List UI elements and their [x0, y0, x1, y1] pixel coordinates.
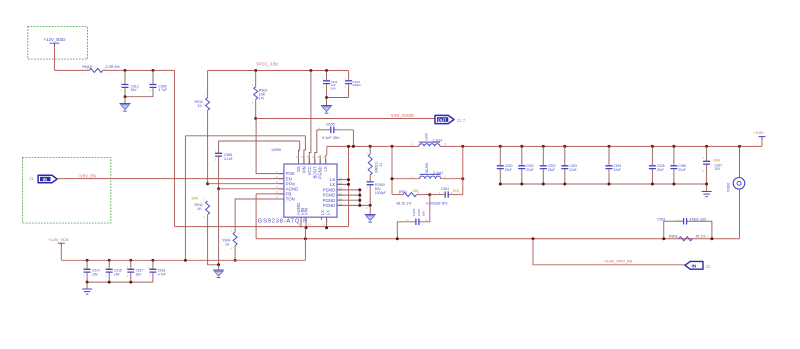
- resistor R901 (DCR sense): [392, 189, 430, 206]
- svg-text:DNI: DNI: [714, 159, 721, 163]
- inductor L901: [411, 163, 447, 179]
- U900 top pin names (rotated): [296, 166, 328, 179]
- wire PGND collector: [360, 190, 370, 206]
- svg-text:10V: 10V: [715, 167, 722, 171]
- wire LX top pin drop: [326, 146, 327, 155]
- node: bootstrap junction: [352, 145, 355, 148]
- svg-text:X9000: X9000: [727, 183, 731, 192]
- capacitor PC900 (snubber): [367, 182, 386, 206]
- svg-text:5VCC_3.8V: 5VCC_3.8V: [257, 62, 279, 67]
- node: output node: [461, 145, 464, 148]
- wire rail-end riser: [304, 228, 306, 260]
- node: PGND pin junctions: [358, 188, 361, 191]
- wire VCC pin drop: [299, 141, 300, 164]
- svg-text:PGND: PGND: [323, 203, 335, 208]
- capacitor C960: [150, 70, 168, 96]
- svg-text:+0.8V: +0.8V: [754, 130, 765, 135]
- svg-text:2.2R 5%: 2.2R 5%: [106, 65, 121, 69]
- svg-text:DNI: DNI: [413, 189, 419, 193]
- svg-text:50V: 50V: [421, 210, 425, 216]
- node: sense tap junction: [396, 237, 399, 240]
- wire VSNS pin drop: [304, 136, 306, 164]
- svg-text:LX: LX: [323, 166, 328, 171]
- svg-text:VCC: VCC: [307, 166, 312, 175]
- wire 0.8V rail drop: [60, 246, 62, 260]
- inductor L900: [411, 133, 447, 146]
- output capacitors C920..C927: [497, 145, 723, 190]
- wire output cap ground bus: [500, 183, 706, 185]
- svg-text:13: 13: [339, 196, 343, 200]
- wire VIN bottom feed: [175, 226, 349, 228]
- svg-text:10: 10: [308, 223, 312, 227]
- op-amp/regulator U900 GS9238-ATQ-R body: [284, 164, 337, 217]
- U900 left pin stubs: [274, 174, 284, 199]
- svg-text:0.8V_EN: 0.8V_EN: [80, 174, 96, 179]
- svg-text:L900: L900: [425, 133, 429, 141]
- node: +12V filter junction 1: [124, 69, 127, 72]
- svg-text:22uF: 22uF: [614, 168, 621, 172]
- ground (PGND): [365, 205, 376, 222]
- node: snubber junction: [369, 145, 372, 148]
- U900 top pin numbers: [296, 155, 327, 159]
- capacitor C916: [127, 259, 143, 282]
- ground (input caps): [82, 282, 92, 294]
- U900 left pin names: [286, 171, 298, 202]
- wire VCC pin feed: [309, 71, 311, 165]
- node: LX pin junctions on riser: [347, 178, 350, 181]
- wire VSNS loop top: [185, 135, 305, 137]
- svg-text:1%: 1%: [259, 97, 265, 101]
- svg-text:22uF: 22uF: [657, 168, 664, 172]
- node: +12V filter junction 2: [152, 69, 155, 72]
- svg-text:LX: LX: [326, 210, 331, 215]
- svg-text:DNI: DNI: [192, 196, 199, 201]
- node: ground bus junctions: [499, 183, 502, 186]
- wire FB drop to port: [533, 239, 685, 265]
- node: LX tap for L901: [391, 145, 394, 148]
- U900 left pin numbers: [276, 170, 278, 199]
- svg-text:16V: 16V: [136, 272, 143, 276]
- wire TON feed: [235, 199, 274, 232]
- svg-text:NC900: NC900: [425, 163, 429, 173]
- resistor RN15: [82, 65, 120, 72]
- svg-text:1K: 1K: [197, 207, 202, 211]
- svg-text:4.7uF: 4.7uF: [159, 88, 168, 92]
- capacitor C905: [215, 141, 233, 189]
- node: TON resistor to rail: [234, 259, 237, 262]
- svg-text:TON: TON: [286, 197, 295, 202]
- svg-text:16V: 16V: [131, 88, 138, 92]
- wire 5VCC rail: [208, 70, 349, 72]
- svg-text:9.1nF 25V: 9.1nF 25V: [322, 136, 340, 140]
- wire 5VCC cap bottoms: [327, 97, 349, 99]
- resistor R912: [195, 71, 210, 184]
- wire 0.8V_GOOD: [256, 118, 435, 120]
- svg-text:+0.8V_PRO_FB: +0.8V_PRO_FB: [604, 258, 632, 263]
- capacitor C922: [540, 145, 556, 184]
- svg-text:14: 14: [339, 191, 343, 195]
- svg-text:0.8V_GOOD: 0.8V_GOOD: [391, 113, 414, 118]
- capacitor C605 (bootstrap): [315, 123, 354, 156]
- node: AGND junction: [217, 187, 220, 190]
- capacitor C918: [149, 259, 166, 282]
- svg-text:16V: 16V: [114, 272, 121, 276]
- wire 0.8V rail: [61, 259, 305, 261]
- wire VSNS loop left riser: [184, 136, 186, 260]
- wire PFM feed: [208, 183, 274, 185]
- node: cap ground junctions: [108, 281, 111, 284]
- svg-text:SS: SS: [296, 166, 301, 172]
- capacitor C911: [323, 69, 338, 97]
- ground (below C912): [120, 97, 131, 111]
- wire +12V drop: [54, 46, 56, 70]
- wire LX tap riser: [391, 146, 393, 194]
- svg-text:1K: 1K: [198, 104, 203, 108]
- svg-text:22uF: 22uF: [569, 168, 576, 172]
- capacitor C914: [84, 259, 100, 282]
- svg-text:0.1uF: 0.1uF: [224, 157, 233, 161]
- svg-text:100P: 100P: [417, 209, 421, 216]
- svg-text:VIN: VIN: [301, 166, 306, 173]
- wire L901 branch: [392, 178, 463, 180]
- wire L900 to output node: [440, 145, 762, 147]
- svg-text:29: 29: [296, 155, 300, 159]
- svg-text:11: 11: [322, 223, 325, 227]
- wire output rail to flag: [761, 140, 763, 147]
- U900 top pin stubs: [299, 155, 326, 164]
- svg-text:R903: R903: [669, 234, 677, 238]
- svg-text:C605: C605: [326, 123, 335, 127]
- svg-text:LX: LX: [320, 210, 325, 215]
- svg-text:22uF: 22uF: [548, 168, 555, 172]
- svg-text:22: 22: [706, 264, 711, 269]
- svg-text:470pF 16V: 470pF 16V: [690, 217, 707, 221]
- wire FB sense line: [256, 193, 274, 195]
- wire bottom of input caps: [87, 281, 153, 283]
- node: L901/R901 tap: [391, 177, 394, 180]
- svg-text:100nF: 100nF: [352, 83, 361, 87]
- node: AGND star: [217, 263, 220, 266]
- wire VCC loop top: [219, 140, 300, 142]
- capacitor C913: [345, 71, 361, 98]
- svg-text:1K: 1K: [225, 243, 230, 247]
- wire +12V vertical feed: [174, 70, 176, 226]
- U900 right pin names: [323, 177, 336, 208]
- capacitor C927 (DNI): [701, 145, 722, 190]
- svg-text:C901: C901: [441, 187, 449, 191]
- node: VIN pad riser junction: [304, 237, 307, 240]
- svg-text:U900: U900: [272, 147, 282, 152]
- svg-text:1000pF: 1000pF: [375, 191, 386, 195]
- svg-text:26: 26: [312, 155, 316, 159]
- node: VIN pad junctions: [305, 226, 308, 229]
- svg-text:IN: IN: [692, 263, 697, 268]
- svg-text:21: 21: [29, 176, 34, 181]
- resistor R911 (DNI): [192, 196, 219, 265]
- svg-text:16V: 16V: [92, 272, 99, 276]
- svg-text:BOOT: BOOT: [312, 166, 317, 179]
- node: cap bottom junction: [124, 95, 127, 98]
- svg-text:VIN: VIN: [304, 208, 309, 215]
- U900 pin stubs (blue segment near body): [279, 159, 343, 222]
- svg-text:51: 51: [379, 163, 383, 167]
- U900 bottom pin names (rotated): [296, 203, 331, 215]
- wire output riser: [462, 146, 464, 194]
- U900 bottom pin stubs: [301, 217, 327, 228]
- capacitor C903 (feedforward): [657, 217, 712, 238]
- U900 right pin numbers: [339, 176, 343, 206]
- capacitor C921: [518, 145, 534, 184]
- node: L901 junction on output riser: [461, 177, 464, 180]
- wire AGND riser: [218, 189, 220, 265]
- power flag +0.8V_VIN: [48, 237, 69, 246]
- U900 right pin stubs: [337, 180, 360, 206]
- node: 5VCC cap bottom junction: [325, 96, 328, 99]
- power flag +0.8V: [754, 130, 766, 139]
- svg-text:+12V_BSD: +12V_BSD: [44, 37, 66, 42]
- capacitor C924: [606, 145, 622, 184]
- U900 bottom pin numbers: [299, 223, 326, 227]
- capacitor C915: [106, 259, 122, 282]
- svg-text:16V: 16V: [330, 87, 336, 91]
- svg-text:22uF: 22uF: [678, 168, 685, 172]
- capacitor C925: [649, 145, 665, 184]
- ground (AGND): [213, 265, 224, 278]
- svg-text:OUT: OUT: [438, 117, 447, 122]
- wire 0.8V_EN: [57, 178, 274, 180]
- svg-text:+1.8V_VCB: +1.8V_VCB: [48, 237, 69, 242]
- capacitor C923: [561, 145, 577, 184]
- node: rail junction at loop riser: [184, 259, 187, 262]
- wire LX collector riser: [348, 146, 350, 226]
- svg-text:IN: IN: [43, 177, 47, 182]
- svg-text:16: 16: [339, 181, 343, 185]
- capacitor C912: [122, 70, 139, 96]
- svg-text:R901: R901: [399, 190, 407, 194]
- svg-text:C902: C902: [412, 208, 416, 216]
- resistor R902: [254, 69, 268, 118]
- ground (below C911): [321, 98, 332, 114]
- port IN (0.8V_EN): [29, 175, 57, 183]
- component pin numbers (gray): [83, 66, 678, 277]
- capacitor C926: [670, 145, 686, 184]
- sheet connector box (EN input): [23, 158, 111, 224]
- sheet connector box (+12V source): [28, 27, 88, 60]
- svg-text:2K 1%: 2K 1%: [696, 234, 706, 238]
- node: feedforward junctions: [662, 237, 665, 240]
- wire AGND feed: [219, 188, 274, 190]
- node: DCR sense midpoint: [428, 193, 431, 196]
- node: FB drop junction: [532, 237, 535, 240]
- resistor ER910 (snubber): [368, 146, 383, 181]
- node: snubber/PGND tie: [369, 204, 372, 207]
- capacitor C901 (DCR sense): [426, 187, 462, 206]
- svg-text:28: 28: [301, 155, 305, 159]
- node: 5VCC VCC tap: [309, 69, 312, 72]
- wire +12V horizontal: [55, 69, 175, 71]
- svg-text:22uF: 22uF: [526, 168, 533, 172]
- wire POK feed: [256, 119, 274, 174]
- svg-text:68.1K 1%: 68.1K 1%: [397, 202, 412, 206]
- resistor R903: [669, 234, 709, 240]
- test point TP900: [727, 145, 745, 239]
- svg-text:25: 25: [318, 155, 322, 159]
- node: PFM junction: [206, 182, 209, 185]
- svg-text:PGND: PGND: [318, 166, 323, 178]
- port FB (sheet out): [685, 261, 711, 269]
- svg-text:21 7: 21 7: [457, 118, 466, 123]
- svg-text:GS9238-ATQ-R: GS9238-ATQ-R: [258, 219, 308, 225]
- svg-text:LX: LX: [330, 182, 335, 187]
- svg-text:4.7uF: 4.7uF: [158, 272, 166, 276]
- power flag +12V_BSD: [44, 37, 66, 46]
- svg-text:22uF: 22uF: [505, 168, 512, 172]
- ground (output caps): [702, 190, 712, 197]
- node: POK pullup junction: [254, 117, 257, 120]
- wire cap bottoms: [125, 96, 153, 98]
- svg-text:ER910: ER910: [375, 162, 379, 172]
- port OUT (0.8V_GOOD): [435, 115, 466, 123]
- svg-text:12: 12: [339, 202, 343, 206]
- capacitor C902 (sense tap): [397, 195, 430, 239]
- node: LX riser junction: [347, 145, 350, 148]
- svg-text:17: 17: [339, 176, 343, 180]
- wire LX rail: [327, 145, 419, 147]
- svg-text:15: 15: [339, 186, 343, 190]
- svg-text:27: 27: [307, 155, 311, 159]
- resistor R904: [222, 232, 237, 260]
- capacitor C920: [497, 145, 513, 184]
- svg-text:DNI: DNI: [453, 189, 459, 193]
